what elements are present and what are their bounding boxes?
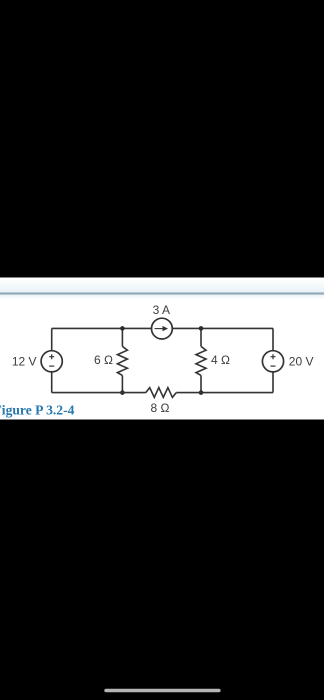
svg-text:20 V: 20 V <box>289 355 314 369</box>
wire top rail right <box>173 327 274 329</box>
voltage source V2 20 V <box>262 351 283 372</box>
node top of 6-ohm <box>120 326 125 331</box>
svg-text:8 Ω: 8 Ω <box>151 401 170 415</box>
wire left branch upper <box>51 328 53 351</box>
wire 6-ohm bottom lead <box>121 375 123 392</box>
node bottom of 4-ohm <box>199 390 204 395</box>
node bottom of 6-ohm <box>120 390 125 395</box>
wire right branch upper <box>272 328 274 351</box>
wire bottom rail right <box>176 392 273 394</box>
voltage source V1 12 V <box>41 351 62 372</box>
wire 4-ohm bottom lead <box>200 375 202 392</box>
wire 4-ohm top lead <box>200 328 202 346</box>
svg-text:3 A: 3 A <box>153 303 170 317</box>
svg-text:6 Ω: 6 Ω <box>94 353 113 367</box>
resistor R3 8 ohm <box>146 388 177 398</box>
node top of 4-ohm <box>199 326 204 331</box>
resistor R1 6 ohm <box>117 346 127 375</box>
wire left branch lower <box>51 372 53 393</box>
current source I1 3 A <box>152 318 173 339</box>
wire bottom rail left <box>52 392 146 394</box>
wire top rail left <box>52 327 152 329</box>
wire 6-ohm top lead <box>121 328 123 346</box>
wire right branch lower <box>272 372 274 393</box>
svg-text:4 Ω: 4 Ω <box>211 353 230 367</box>
svg-text:Figure P 3.2-4: Figure P 3.2-4 <box>0 403 75 418</box>
resistor R2 4 ohm <box>196 346 206 375</box>
svg-text:12 V: 12 V <box>12 355 37 369</box>
